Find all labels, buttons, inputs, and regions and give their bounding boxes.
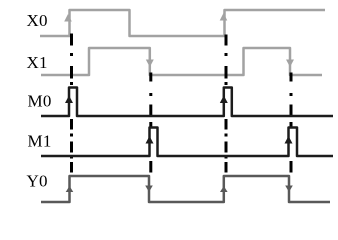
- waveform M0: [41, 88, 333, 117]
- arrow X1 fall 2: [286, 60, 294, 68]
- arrow X0 rise 1: [64, 14, 72, 22]
- arrow Y0 fall 1: [145, 186, 153, 193]
- trigger line T4 (from X1 second falling edge): [290, 73, 293, 173]
- waveform X0: [40, 10, 325, 36]
- arrow M0 pulse 1: [65, 96, 73, 104]
- trigger line T1 (from X0 first rising edge): [70, 34, 73, 173]
- arrow M0 pulse 2: [220, 96, 228, 104]
- trigger line T2 (from X1 first falling edge): [149, 73, 152, 173]
- svg-text:X1: X1: [27, 53, 48, 72]
- trigger line T3 (from X0 second rising edge): [225, 35, 228, 173]
- waveform Y0: [41, 176, 330, 202]
- waveform M1: [41, 128, 333, 157]
- arrow X0 rise 2: [220, 13, 228, 21]
- svg-text:X0: X0: [27, 11, 48, 30]
- svg-text:M0: M0: [28, 92, 52, 111]
- arrow M1 pulse 2: [285, 136, 293, 144]
- waveform X1: [41, 48, 322, 75]
- svg-text:Y0: Y0: [27, 172, 48, 191]
- arrow Y0 fall 2: [285, 186, 293, 193]
- svg-text:M1: M1: [28, 132, 52, 151]
- arrow M1 pulse 1: [146, 136, 154, 144]
- arrow X1 fall 1: [146, 60, 154, 68]
- arrow Y0 rise 2: [220, 186, 228, 192]
- arrow Y0 rise 1: [66, 186, 74, 192]
